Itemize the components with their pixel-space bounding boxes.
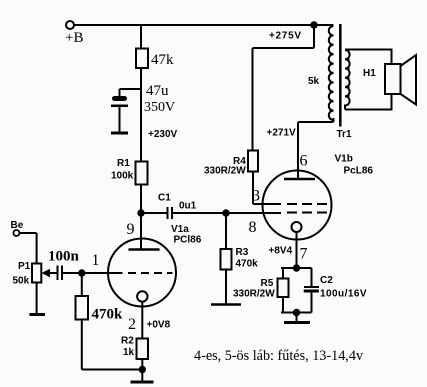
svg-text:47u: 47u [146,83,169,99]
svg-text:P1: P1 [18,261,31,272]
svg-text:C1: C1 [158,193,171,204]
svg-text:R5: R5 [261,278,274,289]
svg-text:R3: R3 [236,247,249,258]
svg-text:2: 2 [128,316,136,333]
svg-text:350V: 350V [144,100,175,115]
svg-text:R1: R1 [117,158,130,169]
svg-text:+275V: +275V [269,31,302,42]
svg-text:9: 9 [127,221,135,238]
svg-text:470k: 470k [92,307,124,323]
svg-text:3: 3 [252,188,260,205]
svg-text:6: 6 [300,153,308,170]
svg-text:4-es, 5-ös láb: fűtés, 13-14,4: 4-es, 5-ös láb: fűtés, 13-14,4v [194,348,364,364]
svg-text:100n: 100n [48,249,80,265]
svg-text:+B: +B [65,30,83,46]
svg-text:+8V4: +8V4 [269,246,293,257]
svg-text:Tr1: Tr1 [337,129,352,140]
svg-text:0u1: 0u1 [179,201,197,212]
svg-text:V1b: V1b [335,154,353,165]
svg-text:470k: 470k [236,259,259,270]
svg-text:1k: 1k [123,347,135,358]
svg-text:7: 7 [300,246,308,263]
svg-text:50k: 50k [13,276,30,287]
svg-text:C2: C2 [320,275,333,286]
svg-text:330R/2W: 330R/2W [204,166,246,177]
svg-text:5k: 5k [308,76,320,87]
svg-text:100k: 100k [111,171,134,182]
svg-text:8: 8 [249,219,257,236]
svg-text:+271V: +271V [267,128,297,139]
svg-text:+230V: +230V [148,129,178,140]
svg-text:330R/2W: 330R/2W [233,289,275,300]
svg-text:PcL86: PcL86 [344,166,374,177]
svg-text:PCl86: PCl86 [174,235,202,246]
svg-text:100u/16V: 100u/16V [320,289,367,300]
svg-text:V1a: V1a [171,224,189,235]
svg-text:+0V8: +0V8 [147,320,171,331]
svg-text:H1: H1 [363,68,376,79]
svg-text:R2: R2 [121,336,134,347]
svg-text:47k: 47k [151,52,174,68]
svg-text:1: 1 [92,252,100,269]
